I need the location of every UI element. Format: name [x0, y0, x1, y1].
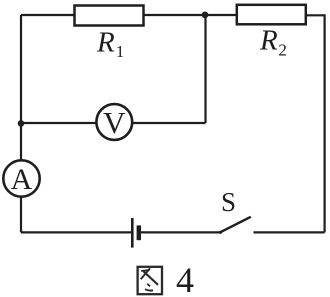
svg-text:A: A: [11, 163, 33, 196]
svg-text:2: 2: [278, 41, 287, 60]
svg-text:S: S: [221, 187, 236, 217]
svg-text:V: V: [103, 105, 126, 140]
svg-text:R: R: [96, 27, 115, 59]
svg-text:1: 1: [116, 42, 125, 61]
svg-text:R: R: [259, 25, 278, 57]
svg-text:4: 4: [176, 260, 194, 297]
